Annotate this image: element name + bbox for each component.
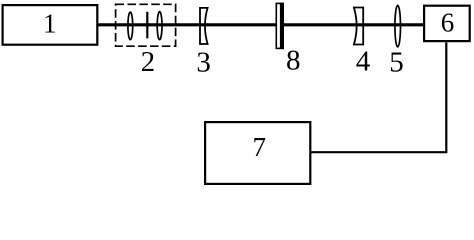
svg-text:1: 1 bbox=[43, 9, 57, 39]
lens 5 (convex lens) bbox=[395, 5, 401, 47]
svg-text:5: 5 bbox=[389, 46, 404, 78]
plate 8 reflective coating (thick bar) bbox=[280, 3, 284, 49]
lens L2b (right lens inside dashed box 2) bbox=[157, 12, 162, 40]
lens L2a (left lens inside dashed box 2) bbox=[128, 12, 133, 40]
box 1 (laser source) bbox=[3, 5, 98, 45]
svg-text:4: 4 bbox=[356, 46, 371, 78]
svg-text:2: 2 bbox=[141, 46, 156, 78]
pinhole aperture line inside box 2 bbox=[146, 12, 148, 39]
svg-text:3: 3 bbox=[196, 47, 211, 79]
svg-text:6: 6 bbox=[441, 8, 455, 38]
svg-text:7: 7 bbox=[252, 132, 266, 162]
wire from box 6 down and left to box 7 bbox=[311, 42, 446, 152]
optical axis wire (horizontal beam line) bbox=[97, 23, 424, 26]
lens 4 (plano-concave, flat right) bbox=[354, 8, 363, 45]
lens 3 (plano-concave, flat left) bbox=[200, 8, 208, 44]
plate 8 (mirror: glass substrate) bbox=[276, 3, 283, 48]
svg-text:8: 8 bbox=[286, 45, 301, 77]
dashed box 2 (beam expander / spatial filter) bbox=[116, 4, 176, 46]
box 6 (detector) bbox=[424, 6, 470, 41]
box 7 (processor) bbox=[205, 122, 310, 184]
